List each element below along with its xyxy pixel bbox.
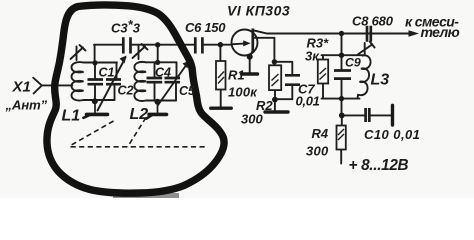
svg-text:L2: L2 bbox=[130, 106, 149, 123]
svg-text:3к: 3к bbox=[305, 49, 320, 64]
svg-text:C1: C1 bbox=[99, 66, 115, 80]
svg-text:300: 300 bbox=[306, 144, 329, 159]
svg-text:L1: L1 bbox=[62, 108, 81, 125]
svg-text:„Ант”: „Ант” bbox=[5, 98, 48, 113]
svg-text:100к: 100к bbox=[228, 85, 258, 100]
svg-text:C6 150: C6 150 bbox=[185, 20, 226, 35]
svg-text:X1: X1 bbox=[12, 79, 31, 96]
svg-text:C5: C5 bbox=[179, 84, 196, 98]
svg-text:R4: R4 bbox=[312, 126, 329, 141]
svg-text:L3: L3 bbox=[371, 72, 390, 89]
svg-text:0,01: 0,01 bbox=[296, 94, 320, 109]
svg-text:C9: C9 bbox=[345, 56, 361, 70]
svg-text:телю: телю bbox=[421, 24, 460, 40]
svg-text:R1: R1 bbox=[228, 68, 245, 83]
svg-text:+ 8...12В: + 8...12В bbox=[349, 157, 409, 174]
svg-text:VI КП303: VI КП303 bbox=[227, 3, 290, 19]
svg-text:C4: C4 bbox=[155, 66, 171, 80]
svg-text:C8 680: C8 680 bbox=[352, 14, 394, 29]
svg-text:C3*3: C3*3 bbox=[111, 17, 141, 36]
svg-text:300: 300 bbox=[241, 112, 263, 127]
svg-text:C10 0,01: C10 0,01 bbox=[364, 127, 420, 142]
svg-text:C2: C2 bbox=[118, 84, 134, 98]
